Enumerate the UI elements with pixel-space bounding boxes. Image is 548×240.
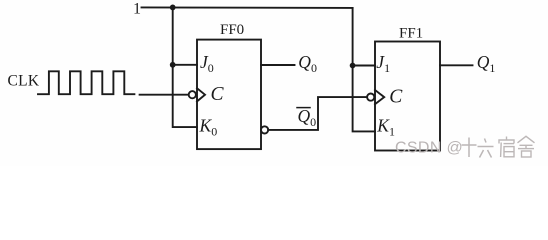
- FF0 Qbar inversion bubble: [261, 126, 268, 133]
- FF1 dynamic clock wedge: [375, 90, 384, 104]
- hanzi 舍: [518, 136, 535, 157]
- svg-text:FF1: FF1: [399, 25, 423, 41]
- flip-flop FF1 box: [375, 42, 440, 151]
- svg-text:CSDN @: CSDN @: [395, 140, 463, 157]
- svg-text:1: 1: [133, 0, 141, 17]
- svg-text:C: C: [211, 84, 225, 105]
- junction dot J0 tap: [170, 62, 176, 68]
- wire J0 input: [173, 64, 197, 66]
- svg-text:Q0: Q0: [298, 106, 317, 129]
- hanzi 十: [462, 138, 477, 158]
- FF0 clock inversion bubble: [189, 91, 196, 98]
- svg-text:K0: K0: [199, 115, 218, 138]
- FF1 clock inversion bubble: [367, 94, 374, 101]
- CLK waveform: [38, 71, 134, 94]
- wire left vertical rail down to K0: [173, 7, 197, 127]
- overbar of Q0 bar: [297, 107, 310, 109]
- svg-text:J1: J1: [376, 52, 390, 75]
- wire CLK to FF0 C input: [140, 94, 189, 96]
- svg-text:CLK: CLK: [8, 73, 40, 90]
- hanzi 宿: [499, 137, 514, 158]
- wire Q0 output: [261, 64, 295, 66]
- svg-text:C: C: [389, 87, 403, 108]
- wire Q0bar to FF1 C input: [268, 97, 367, 130]
- svg-text:K1: K1: [376, 116, 395, 139]
- wire Q1 output: [440, 64, 473, 66]
- FF0 dynamic clock wedge: [197, 88, 205, 101]
- wire right vertical rail down to K1: [353, 8, 375, 131]
- hanzi 六: [478, 139, 494, 158]
- wire J1 input: [353, 65, 375, 67]
- watermark CSDN @十六宿舍: [395, 136, 535, 157]
- flip-flop FF0 box: [197, 40, 261, 150]
- svg-text:Q0: Q0: [298, 52, 317, 75]
- junction dot J1 tap: [350, 63, 356, 69]
- svg-text:FF0: FF0: [220, 22, 244, 38]
- wire top horizontal rail from 1: [142, 6, 353, 9]
- svg-text:Q1: Q1: [477, 52, 496, 75]
- svg-text:J0: J0: [200, 52, 214, 75]
- junction dot top of left rail: [170, 5, 176, 11]
